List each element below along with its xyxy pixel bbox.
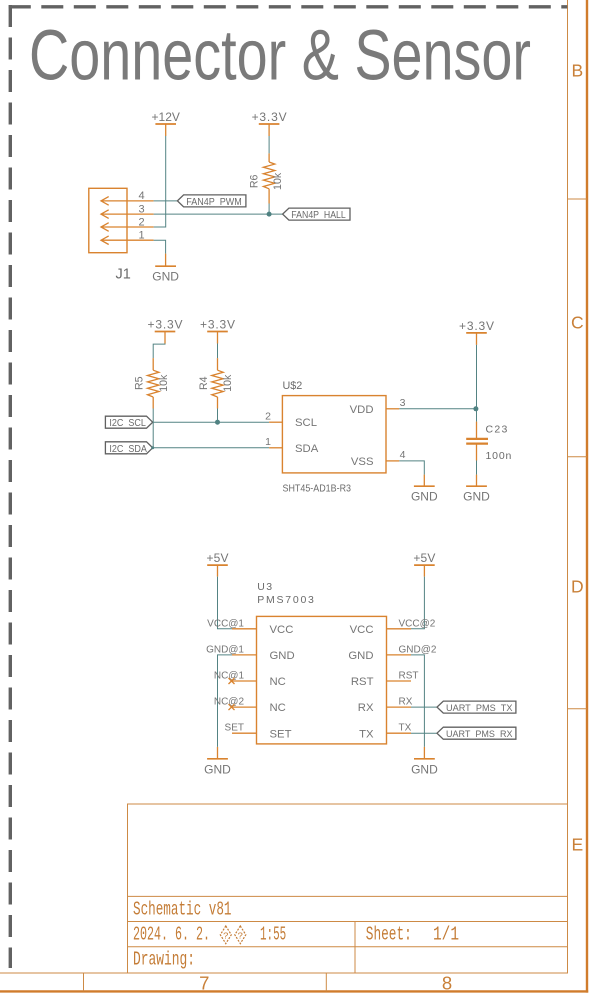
power +12V bar symbol: [155, 124, 176, 136]
svg-text:GND: GND: [411, 489, 438, 503]
svg-text:1/1: 1/1: [433, 923, 459, 945]
svg-text:2024. 6. 2.: 2024. 6. 2.: [133, 923, 210, 945]
svg-text:10k: 10k: [158, 374, 170, 392]
svg-text:+3.3V: +3.3V: [252, 110, 287, 124]
power +3.3V bar symbol R5: [155, 332, 176, 344]
svg-text:GND: GND: [411, 762, 438, 776]
wire +3.3V to R4: [217, 344, 219, 359]
svg-text:SCL: SCL: [295, 417, 317, 429]
no-connect X NC2: [229, 704, 235, 710]
svg-text:1: 1: [265, 436, 271, 448]
svg-text:U$2: U$2: [283, 380, 303, 392]
svg-text:GND: GND: [463, 489, 490, 503]
svg-text:2: 2: [138, 216, 144, 228]
svg-text:?: ?: [237, 930, 243, 941]
wire +5V right to VCC pin: [411, 577, 424, 629]
zone tick D/E: [568, 708, 588, 710]
bottom zone tick left: [83, 973, 85, 991]
svg-text:RX: RX: [399, 697, 413, 708]
svg-text:UART_PMS_TX: UART_PMS_TX: [446, 703, 513, 714]
junction VDD: [473, 406, 478, 411]
global label I2C_SDA: [105, 442, 152, 455]
wire GND@1 to ground: [218, 655, 233, 747]
power +3.3V bar symbol C23: [466, 333, 487, 345]
U3 pin NC2 left: [232, 706, 257, 708]
svg-text:R4: R4: [198, 376, 210, 390]
wire R6 to junction: [268, 204, 270, 215]
ground symbol U3 left: [207, 747, 228, 759]
title block column divider: [354, 922, 356, 974]
svg-text:2: 2: [265, 411, 271, 423]
U3 pin RST right: [387, 680, 412, 682]
J1 pin 4: [101, 197, 154, 206]
svg-text:Sheet:: Sheet:: [366, 923, 412, 945]
title block row line 3: [128, 946, 568, 948]
svg-text:NC: NC: [270, 702, 286, 714]
svg-text:E: E: [571, 835, 583, 855]
svg-text:R5: R5: [134, 376, 146, 390]
svg-text:VCC@1: VCC@1: [207, 618, 244, 629]
svg-text:Schematic v81: Schematic v81: [133, 899, 232, 921]
svg-text:FAN4P_PWM: FAN4P_PWM: [186, 197, 242, 208]
wire pin3 to FAN4P_HALL: [154, 213, 283, 215]
svg-text:VCC: VCC: [270, 624, 294, 636]
svg-text:+5V: +5V: [207, 551, 229, 565]
sheet frame outer bottom border: [0, 990, 588, 992]
wire +12V vertical to pin2: [154, 136, 166, 227]
svg-text:GND: GND: [204, 762, 231, 776]
U$2 pin 2 SCL: [269, 421, 282, 423]
wire R4 down to SCL junction: [217, 409, 219, 423]
svg-text:SET: SET: [270, 728, 292, 740]
svg-text:1:55: 1:55: [260, 923, 286, 945]
svg-text:3: 3: [400, 397, 406, 409]
U3 pin GND right: [387, 654, 412, 656]
svg-text:I2C_SCL: I2C_SCL: [109, 418, 146, 429]
svg-text:I2C_SDA: I2C_SDA: [109, 444, 147, 455]
U3 pin SET left: [232, 732, 257, 734]
capacitor C23: [466, 422, 488, 461]
wire TX to UART_PMS_RX: [411, 732, 437, 734]
junction I2C_SDA: [151, 446, 154, 449]
svg-text:Drawing:: Drawing:: [133, 948, 195, 970]
U$2 pin 3 VDD: [386, 408, 399, 410]
svg-text:10k: 10k: [272, 172, 284, 190]
wire +3.3V down to VDD junction: [476, 345, 478, 409]
global label FAN4P_PWM: [177, 195, 246, 208]
svg-text:+3.3V: +3.3V: [459, 319, 494, 333]
wire +5V to VCC pin: [218, 577, 233, 629]
no-connect X NC1: [229, 678, 235, 684]
wire +3.3V to R6: [268, 136, 270, 153]
U3 pin RX right: [387, 706, 412, 708]
title block row line 2: [128, 921, 568, 923]
global label UART_PMS_RX: [437, 727, 516, 740]
svg-text:D: D: [571, 576, 584, 596]
svg-text:PMS7003: PMS7003: [257, 594, 314, 606]
svg-text:+3.3V: +3.3V: [148, 318, 183, 332]
wire SDA: [153, 447, 269, 449]
svg-text:SET: SET: [225, 723, 244, 734]
IC U$2 body: [282, 396, 386, 473]
svg-text:RST: RST: [399, 671, 419, 682]
zone tick C/D: [568, 456, 588, 458]
svg-text:B: B: [571, 61, 583, 81]
svg-text:4: 4: [400, 449, 406, 461]
sheet frame inner bottom line: [0, 972, 568, 974]
wire VDD to junction: [399, 408, 476, 410]
J1 pin 3: [101, 210, 154, 219]
svg-text:C23: C23: [486, 423, 508, 435]
global label I2C_SCL: [105, 416, 152, 429]
resistor R4: [212, 358, 223, 408]
svg-text:8: 8: [442, 973, 452, 994]
ground symbol VSS: [414, 475, 435, 487]
J1 pin 2: [101, 223, 154, 232]
svg-text:Connector & Sensor: Connector & Sensor: [29, 17, 531, 96]
sheet frame inner right line: [567, 0, 569, 973]
svg-text:GND@1: GND@1: [206, 644, 244, 655]
title block outline: [128, 804, 568, 973]
U$2 pin 1 SDA: [269, 447, 282, 449]
svg-text:GND: GND: [348, 650, 373, 662]
svg-text:SDA: SDA: [295, 443, 319, 455]
power +5V bar symbol left: [207, 565, 228, 577]
wire pin1 to GND: [154, 240, 166, 253]
wire SCL: [153, 421, 269, 423]
U3 pin GND left: [232, 654, 257, 656]
U3 pin VCC right: [387, 628, 412, 630]
wire pin4 to FAN4P_PWM: [154, 200, 178, 202]
U3 pin TX right: [387, 732, 412, 734]
power +3.3V bar symbol R4: [207, 332, 228, 344]
U3 pin VCC left: [232, 628, 257, 630]
connector J1 body: [89, 188, 127, 252]
svg-text:10k: 10k: [222, 374, 234, 392]
svg-text:VSS: VSS: [351, 456, 374, 468]
ground symbol fan: [155, 254, 176, 267]
ground symbol U3 right: [414, 747, 435, 759]
global label FAN4P_HALL: [283, 208, 350, 221]
svg-text:3: 3: [138, 203, 144, 215]
power +3.3V bar symbol R6: [259, 124, 280, 136]
junction R4 SCL: [215, 420, 220, 425]
svg-text:VCC: VCC: [350, 624, 374, 636]
svg-text:7: 7: [199, 973, 209, 994]
title block row line 1: [128, 895, 568, 897]
svg-text:TX: TX: [359, 728, 374, 740]
svg-text:4: 4: [138, 190, 144, 202]
J1 pin 1: [101, 236, 154, 245]
IC U3 body: [257, 616, 387, 744]
wire GND@2 to ground: [411, 655, 424, 747]
svg-text:GND: GND: [152, 269, 179, 283]
global label UART_PMS_TX: [437, 701, 516, 714]
svg-text:R6: R6: [249, 175, 261, 189]
svg-text:+5V: +5V: [413, 551, 435, 565]
missing-glyph diamond 2: [235, 926, 246, 944]
power +5V bar symbol right: [414, 565, 435, 577]
svg-text:GND: GND: [270, 650, 295, 662]
svg-text:TX: TX: [399, 723, 412, 734]
junction fan hall: [267, 212, 272, 217]
svg-text:NC: NC: [270, 676, 286, 688]
wire junction to C23: [476, 409, 478, 422]
svg-text:1: 1: [138, 230, 144, 242]
missing-glyph diamond 1: [220, 926, 231, 944]
wire RX to UART_PMS_TX: [411, 706, 437, 708]
sheet frame outer right border: [586, 0, 588, 993]
svg-text:VCC@2: VCC@2: [399, 618, 436, 629]
ground symbol C23: [466, 475, 487, 487]
svg-text:+3.3V: +3.3V: [200, 318, 235, 332]
svg-text:+12V: +12V: [151, 110, 180, 124]
svg-text:RST: RST: [351, 676, 374, 688]
svg-text:NC@2: NC@2: [214, 697, 245, 708]
svg-text:?: ?: [223, 930, 229, 941]
svg-text:NC@1: NC@1: [214, 671, 245, 682]
wire VSS to ground: [399, 461, 424, 475]
hierarchical sheet dashed boundary left: [9, 5, 12, 968]
zone tick B/C: [568, 198, 588, 200]
svg-text:VDD: VDD: [350, 404, 374, 416]
resistor R5: [148, 358, 159, 408]
bottom zone tick 7/8: [325, 973, 327, 991]
resistor R6: [263, 153, 274, 203]
svg-text:FAN4P_HALL: FAN4P_HALL: [291, 210, 346, 221]
svg-text:J1: J1: [116, 267, 131, 283]
svg-text:GND@2: GND@2: [399, 644, 437, 655]
U3 pin NC1 left: [232, 680, 257, 682]
wire C23 to ground: [476, 461, 478, 475]
hierarchical sheet dashed boundary top: [9, 5, 568, 8]
svg-text:SHT45-AD1B-R3: SHT45-AD1B-R3: [283, 484, 352, 495]
wire R5 down to SDA: [152, 409, 154, 448]
wire +3.3V jog to R5: [153, 344, 165, 359]
svg-text:UART_PMS_RX: UART_PMS_RX: [446, 729, 513, 740]
svg-text:C: C: [571, 313, 584, 333]
svg-text:100n: 100n: [486, 450, 512, 462]
U$2 pin 4 VSS: [386, 460, 399, 462]
svg-text:RX: RX: [358, 702, 374, 714]
svg-text:U3: U3: [257, 581, 272, 593]
